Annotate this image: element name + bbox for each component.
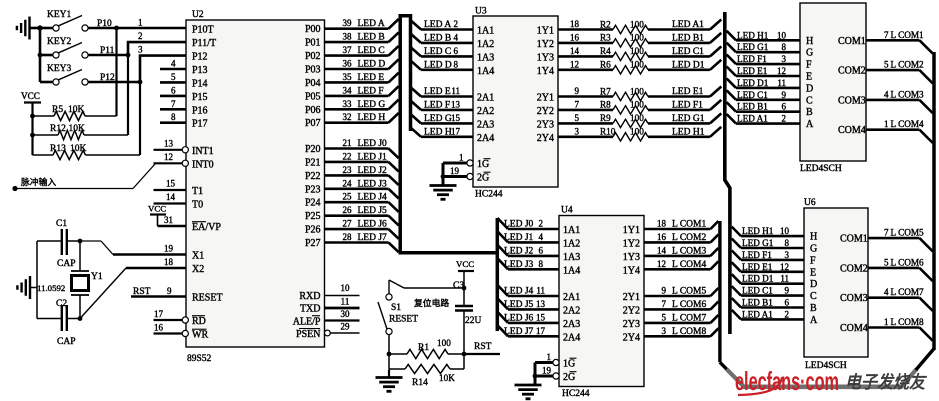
svg-text:LED J1: LED J1 [358, 152, 388, 162]
svg-text:100: 100 [630, 86, 644, 96]
svg-text:VCC: VCC [21, 91, 40, 101]
svg-text:P24: P24 [305, 198, 321, 209]
svg-text:C2: C2 [56, 299, 67, 309]
U2 pin 31 EA/VP [158, 215, 222, 233]
svg-text:6: 6 [171, 85, 176, 95]
svg-text:4: 4 [539, 232, 544, 242]
svg-text:1: 1 [547, 352, 552, 362]
U2 pins 1-3 [138, 18, 143, 55]
svg-text:7: 7 [171, 99, 176, 109]
svg-text:LED H1: LED H1 [737, 30, 769, 40]
svg-text:1Y3: 1Y3 [537, 52, 554, 63]
svg-text:18: 18 [657, 219, 667, 229]
svg-text:14: 14 [166, 192, 176, 202]
resistor R13 10K [33, 82, 141, 160]
svg-text:L COM8: L COM8 [672, 327, 706, 337]
svg-text:LED F: LED F [424, 100, 450, 110]
svg-text:11: 11 [777, 78, 786, 88]
svg-text:29: 29 [341, 322, 351, 332]
svg-text:L COM5: L COM5 [891, 228, 924, 238]
svg-text:COM3: COM3 [838, 95, 866, 106]
svg-text:15: 15 [536, 312, 546, 322]
svg-text:3: 3 [575, 126, 580, 136]
svg-text:5: 5 [884, 60, 889, 70]
svg-text:VCC: VCC [456, 259, 474, 269]
svg-text:100: 100 [630, 100, 644, 110]
svg-text:1Y1: 1Y1 [623, 225, 640, 236]
svg-text:13: 13 [536, 299, 546, 309]
svg-text:10K: 10K [439, 373, 455, 383]
svg-text:8: 8 [782, 42, 787, 52]
U4 input wires nets LED J4-J7 [498, 285, 581, 343]
bus L COM (gray under watermark) [727, 369, 917, 387]
svg-text:ALE/P: ALE/P [293, 317, 321, 328]
svg-text:C: C [806, 95, 813, 106]
svg-text:6: 6 [539, 245, 544, 255]
svg-text:2: 2 [785, 309, 790, 319]
svg-text:6: 6 [454, 46, 459, 56]
svg-text:X2: X2 [192, 264, 204, 275]
svg-text:8: 8 [171, 112, 176, 122]
svg-text:P02: P02 [305, 51, 321, 62]
svg-text:P06: P06 [305, 105, 321, 116]
svg-text:WR: WR [192, 330, 208, 341]
svg-text:HC244: HC244 [562, 389, 590, 399]
svg-text:38: 38 [343, 32, 353, 42]
svg-text:LED J5: LED J5 [504, 300, 534, 310]
capacitor C1 CAP [37, 219, 80, 269]
U2 pin 30 ALE/P [293, 309, 360, 328]
U3 1G 2G enable pins [441, 153, 491, 186]
svg-text:5: 5 [575, 113, 580, 123]
svg-text:28: 28 [343, 232, 353, 242]
svg-text:R10: R10 [600, 127, 616, 137]
svg-text:LED C: LED C [358, 46, 385, 56]
svg-text:1A4: 1A4 [563, 265, 580, 276]
svg-text:P16: P16 [192, 105, 208, 116]
svg-text:LED A1: LED A1 [742, 309, 773, 319]
svg-text:6: 6 [782, 102, 787, 112]
svg-text:22U: 22U [465, 316, 482, 326]
svg-text:18: 18 [570, 19, 580, 29]
svg-text:LED E1: LED E1 [672, 87, 704, 97]
U2 pin 15 T1 [154, 179, 204, 198]
svg-text:8: 8 [785, 238, 790, 248]
svg-text:2: 2 [454, 19, 459, 29]
svg-text:P10: P10 [97, 19, 112, 29]
svg-text:H: H [810, 232, 817, 243]
svg-text:C: C [810, 291, 817, 302]
svg-text:2Y3: 2Y3 [623, 319, 640, 330]
svg-text:LED H1: LED H1 [672, 127, 705, 137]
U4 output wires nets L COM1-L COM8 [644, 219, 718, 337]
svg-text:脉冲输入: 脉冲输入 [21, 176, 56, 187]
svg-text:VCC: VCC [148, 204, 166, 214]
buffer U3 HC244 [473, 7, 558, 200]
svg-text:12: 12 [164, 152, 173, 162]
svg-text:27: 27 [343, 219, 353, 229]
svg-text:2Y3: 2Y3 [537, 119, 554, 130]
svg-text:L COM1: L COM1 [891, 30, 924, 40]
svg-text:31: 31 [164, 215, 173, 225]
svg-text:26: 26 [343, 205, 353, 215]
svg-text:P11/T: P11/T [192, 38, 216, 49]
U2 pin 10 RXD [299, 283, 359, 302]
svg-text:LED J7: LED J7 [358, 233, 388, 243]
svg-text:10: 10 [341, 283, 351, 293]
svg-text:4: 4 [884, 89, 889, 99]
svg-text:13: 13 [164, 139, 174, 149]
svg-text:D: D [810, 279, 817, 290]
svg-text:30: 30 [341, 309, 351, 319]
svg-text:2: 2 [138, 31, 143, 41]
svg-text:LED J4: LED J4 [358, 193, 388, 203]
power VCC (EA pin) [148, 204, 166, 227]
svg-text:1Y2: 1Y2 [537, 39, 554, 50]
ground (reset) [376, 370, 403, 392]
buffer U4 HC244 [559, 206, 644, 400]
svg-text:COM1: COM1 [840, 234, 868, 245]
svg-text:9: 9 [167, 286, 172, 296]
svg-text:12: 12 [570, 59, 579, 69]
svg-text:2A2: 2A2 [477, 106, 494, 117]
svg-text:5: 5 [662, 312, 667, 322]
U5 COM outputs nets L COM1-4 [838, 30, 933, 143]
ground (U4 enables) [515, 385, 542, 399]
bus LED A-H loop [400, 16, 410, 253]
svg-text:LED C: LED C [424, 47, 451, 57]
svg-text:1: 1 [138, 18, 143, 28]
svg-text:LED F1: LED F1 [742, 250, 772, 260]
svg-text:100: 100 [630, 33, 644, 43]
svg-text:1A2: 1A2 [563, 238, 580, 249]
U2 pin 12 INT0 [154, 152, 214, 170]
svg-text:CAP: CAP [57, 337, 75, 347]
svg-text:19: 19 [164, 244, 174, 254]
svg-text:P01: P01 [305, 38, 321, 49]
svg-text:18: 18 [164, 257, 174, 267]
svg-text:3: 3 [662, 326, 667, 336]
svg-text:EA/VP: EA/VP [192, 222, 221, 233]
svg-text:1A4: 1A4 [477, 66, 494, 77]
bus LED segments A1-H1 [725, 12, 730, 334]
svg-text:2A1: 2A1 [477, 93, 494, 104]
svg-text:89S52: 89S52 [187, 354, 212, 364]
svg-text:P05: P05 [305, 91, 321, 102]
svg-text:1A3: 1A3 [477, 52, 494, 63]
svg-text:C3: C3 [453, 281, 464, 291]
svg-text:LED D1: LED D1 [742, 274, 774, 284]
resistors R2-R10 100 on U3 outputs, nets LED A1-H1 [558, 19, 721, 141]
svg-text:G: G [810, 244, 817, 255]
svg-text:LED D: LED D [424, 60, 452, 70]
svg-text:4: 4 [454, 32, 459, 42]
svg-text:U3: U3 [475, 7, 487, 17]
svg-text:LED A: LED A [358, 19, 385, 29]
U2 left pin labels [192, 25, 216, 130]
svg-text:P00: P00 [305, 24, 321, 35]
svg-text:U6: U6 [804, 198, 816, 208]
svg-text:16: 16 [657, 232, 667, 242]
svg-text:P25: P25 [305, 211, 321, 222]
svg-text:P17: P17 [192, 119, 208, 130]
svg-text:LED G1: LED G1 [742, 238, 774, 248]
svg-text:TXD: TXD [300, 304, 321, 315]
svg-text:9: 9 [662, 286, 667, 296]
svg-text:1: 1 [459, 153, 464, 163]
svg-text:19: 19 [542, 366, 552, 376]
svg-text:F: F [810, 255, 816, 266]
crystal Y1 11.0592 [37, 241, 103, 319]
svg-text:LED J0: LED J0 [358, 139, 388, 149]
svg-text:R14: R14 [412, 378, 428, 388]
svg-text:B: B [810, 303, 817, 314]
watermark elecfans.com logo [735, 366, 839, 396]
resistor R9 100 [558, 113, 721, 128]
resistor R8 100 [558, 99, 721, 114]
svg-text:LED J7: LED J7 [504, 327, 534, 337]
svg-text:21: 21 [343, 138, 352, 148]
U2 P2 output wires nets LED J0-J7 [325, 138, 399, 252]
U2 pin 9 RESET / net RST [131, 286, 223, 304]
node 脉冲输入 (pulse input) [12, 164, 155, 191]
resistor R6 100 [558, 59, 721, 74]
svg-text:10K: 10K [70, 144, 87, 154]
svg-text:LED E: LED E [424, 87, 451, 97]
U6 COM outputs nets L COM5-8 [840, 228, 933, 341]
svg-text:39: 39 [343, 18, 353, 28]
resistor R2 100 [558, 19, 721, 34]
svg-text:L COM7: L COM7 [672, 313, 706, 323]
svg-text:F: F [806, 60, 812, 71]
svg-text:LED F1: LED F1 [672, 100, 703, 110]
svg-text:LED J3: LED J3 [504, 260, 534, 270]
svg-text:2Y2: 2Y2 [623, 305, 640, 316]
svg-text:37: 37 [343, 45, 353, 55]
svg-text:11.0592: 11.0592 [37, 283, 65, 293]
svg-text:PSEN: PSEN [296, 329, 320, 340]
svg-text:INT0: INT0 [192, 159, 214, 170]
svg-text:34: 34 [343, 85, 353, 95]
svg-text:S1: S1 [391, 303, 401, 313]
resistor R10 100 [558, 126, 721, 141]
switch S1 RESET [378, 280, 464, 335]
U2 pin 18 X2 [126, 257, 204, 275]
svg-text:LED F: LED F [358, 86, 384, 96]
svg-text:LED A1: LED A1 [737, 114, 768, 124]
svg-text:12: 12 [777, 66, 786, 76]
svg-text:P22: P22 [305, 171, 321, 182]
switch KEY3 [40, 64, 88, 85]
svg-text:8: 8 [454, 59, 459, 69]
svg-text:11: 11 [451, 86, 460, 96]
svg-text:R2: R2 [600, 19, 611, 29]
svg-text:1A1: 1A1 [563, 225, 580, 236]
op IC U2 89S52 [186, 10, 325, 364]
node RST [462, 342, 500, 356]
svg-text:P20: P20 [305, 144, 321, 155]
svg-text:复位电路: 复位电路 [414, 297, 449, 308]
svg-text:1A2: 1A2 [477, 39, 494, 50]
svg-text:8: 8 [539, 259, 544, 269]
svg-text:LED C1: LED C1 [672, 47, 704, 57]
watermark 电子发烧友 [845, 372, 927, 392]
svg-text:4: 4 [884, 287, 889, 297]
svg-text:1Y4: 1Y4 [623, 265, 640, 276]
ground (key common) [17, 17, 43, 40]
svg-text:LED H: LED H [424, 127, 452, 137]
svg-text:COM2: COM2 [840, 263, 868, 274]
svg-text:L COM6: L COM6 [672, 300, 706, 310]
svg-text:LED B: LED B [358, 33, 385, 43]
svg-text:1A3: 1A3 [563, 252, 580, 263]
svg-text:LED B1: LED B1 [672, 33, 704, 43]
svg-text:R9: R9 [600, 113, 611, 123]
svg-text:2A4: 2A4 [477, 133, 494, 144]
svg-text:2A3: 2A3 [563, 319, 580, 330]
U4 output labels 1Y1-2Y4 [623, 225, 640, 343]
svg-text:16: 16 [154, 323, 164, 333]
svg-text:100: 100 [630, 113, 644, 123]
bus L COM1-8 (U4 to displays, black part) [720, 221, 727, 370]
svg-text:2G: 2G [563, 372, 575, 383]
ground (crystal) [17, 276, 37, 299]
svg-text:1: 1 [884, 317, 889, 327]
svg-text:2A4: 2A4 [563, 332, 580, 343]
svg-text:KEY3: KEY3 [47, 64, 72, 74]
U2 pin 19 X1 [113, 244, 204, 262]
svg-text:LED C1: LED C1 [737, 90, 768, 100]
svg-text:LED4SCH: LED4SCH [800, 164, 842, 174]
switch KEY2 [40, 37, 88, 58]
svg-text:10: 10 [780, 226, 790, 236]
svg-text:P04: P04 [305, 78, 321, 89]
svg-text:100: 100 [630, 19, 644, 29]
svg-text:11: 11 [341, 297, 350, 307]
svg-text:D: D [806, 83, 813, 94]
svg-text:LED B1: LED B1 [742, 298, 773, 308]
svg-text:16: 16 [570, 32, 580, 42]
svg-text:RD: RD [192, 316, 206, 327]
svg-text:100: 100 [630, 127, 644, 137]
svg-text:B: B [806, 107, 813, 118]
svg-text:LED J3: LED J3 [358, 179, 388, 189]
U2 pin 29 PSEN [296, 322, 359, 341]
svg-text:36: 36 [343, 59, 353, 69]
svg-text:P23: P23 [305, 184, 321, 195]
svg-text:2: 2 [539, 219, 544, 229]
svg-text:RESET: RESET [389, 315, 418, 325]
svg-text:P27: P27 [305, 238, 321, 249]
svg-text:6: 6 [785, 298, 790, 308]
svg-text:LED H: LED H [358, 113, 386, 123]
bus LED J vertical + horizontal [399, 218, 498, 331]
U2 pin 13 INT1 [154, 139, 214, 157]
display U6 LED4SCH [804, 198, 868, 371]
resistor R7 100 [558, 86, 721, 101]
svg-text:H: H [806, 36, 813, 47]
U2 pin 16 WR [154, 323, 209, 341]
svg-text:7: 7 [884, 228, 889, 238]
svg-text:10K: 10K [68, 105, 85, 115]
svg-text:LED G: LED G [424, 114, 452, 124]
svg-text:3: 3 [785, 250, 790, 260]
svg-text:RST: RST [474, 342, 492, 352]
power VCC (pull-ups) [21, 91, 41, 155]
svg-text:RST: RST [133, 287, 151, 297]
svg-text:2A2: 2A2 [563, 305, 580, 316]
svg-text:32: 32 [343, 112, 352, 122]
svg-text:P12: P12 [192, 52, 208, 63]
svg-text:1Y4: 1Y4 [537, 66, 554, 77]
svg-text:LED J0: LED J0 [504, 220, 534, 230]
svg-text:2Y2: 2Y2 [537, 106, 554, 117]
svg-text:P07: P07 [305, 118, 321, 129]
wire X1 link [78, 239, 113, 255]
svg-text:LED G1: LED G1 [672, 114, 705, 124]
svg-text:24: 24 [343, 178, 353, 188]
svg-text:L COM7: L COM7 [891, 287, 924, 297]
svg-text:U2: U2 [192, 10, 204, 20]
svg-text:LED C1: LED C1 [742, 286, 773, 296]
resistor R14 10K [387, 352, 464, 388]
svg-text:10: 10 [777, 30, 787, 40]
svg-text:LED G: LED G [358, 100, 386, 110]
U2 pin 11 TXD [300, 297, 360, 315]
svg-text:14: 14 [570, 46, 580, 56]
U2 pins 4-8 stubs [160, 59, 186, 123]
svg-text:T1: T1 [192, 186, 203, 197]
svg-text:P11: P11 [100, 46, 115, 56]
svg-text:COM2: COM2 [838, 66, 866, 77]
svg-text:LED G1: LED G1 [737, 42, 769, 52]
svg-text:7: 7 [575, 99, 580, 109]
svg-text:4: 4 [171, 59, 176, 69]
svg-text:LED A1: LED A1 [672, 20, 704, 30]
switch KEY1 [40, 10, 88, 31]
svg-text:LED J4: LED J4 [504, 287, 534, 297]
svg-text:G: G [806, 48, 813, 59]
svg-text:1Y3: 1Y3 [623, 252, 640, 263]
svg-text:LED D: LED D [358, 60, 386, 70]
svg-text:LED E: LED E [358, 73, 385, 83]
svg-text:KEY2: KEY2 [47, 37, 72, 47]
svg-text:P26: P26 [305, 225, 321, 236]
display U5 LED4SCH [800, 3, 866, 174]
svg-text:L COM4: L COM4 [891, 119, 924, 129]
svg-text:11: 11 [536, 286, 545, 296]
U2 right port labels P20-P27 [305, 144, 321, 249]
resistor R5 10K [33, 28, 117, 121]
svg-text:A: A [810, 315, 818, 326]
svg-text:R4: R4 [600, 46, 611, 56]
svg-text:R7: R7 [600, 86, 611, 96]
svg-text:2A1: 2A1 [563, 292, 580, 303]
svg-text:100: 100 [630, 46, 644, 56]
U3 output labels 1Y1-2Y4 [537, 26, 554, 144]
svg-text:2Y1: 2Y1 [537, 93, 554, 104]
svg-text:1: 1 [884, 119, 889, 129]
svg-text:LED F1: LED F1 [737, 54, 767, 64]
svg-text:R1: R1 [418, 343, 429, 353]
svg-text:1Y2: 1Y2 [623, 238, 640, 249]
svg-text:17: 17 [536, 326, 546, 336]
svg-text:9: 9 [575, 86, 580, 96]
svg-text:R5: R5 [52, 105, 63, 115]
svg-text:X1: X1 [192, 251, 204, 262]
U4 input wires nets LED J0-J3 [498, 218, 581, 276]
svg-text:11: 11 [780, 274, 789, 284]
